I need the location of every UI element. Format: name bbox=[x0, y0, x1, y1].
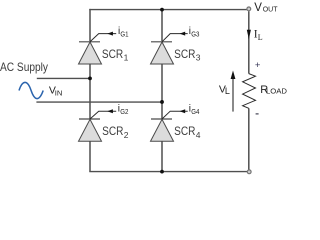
wire right branch bbox=[161, 10, 163, 172]
label iG4 bbox=[189, 104, 200, 116]
resistor RLOAD bbox=[243, 74, 256, 109]
svg-text:OUT: OUT bbox=[263, 5, 278, 14]
SCR Q4 (SCR4) bbox=[151, 119, 174, 141]
svg-text:G4: G4 bbox=[191, 107, 199, 116]
node AC2 junction dot bbox=[160, 100, 164, 104]
gate wire G1 bbox=[90, 34, 116, 42]
label VIN bbox=[49, 85, 62, 98]
gate wire G3 bbox=[162, 34, 188, 42]
SCR Q3 (SCR3) bbox=[151, 42, 174, 64]
SCR Q1 (SCR1) bbox=[79, 42, 102, 64]
wire AC input line 1 bbox=[37, 77, 90, 79]
svg-text:V: V bbox=[254, 2, 262, 14]
svg-text:G1: G1 bbox=[120, 29, 128, 38]
wire AC input line 2 bbox=[36, 101, 162, 103]
svg-text:SCR: SCR bbox=[102, 124, 124, 138]
svg-text:AC Supply: AC Supply bbox=[0, 60, 48, 74]
arrow IL (load current) bbox=[247, 30, 251, 40]
label SCR4 bbox=[174, 124, 201, 140]
label minus bbox=[256, 113, 259, 115]
label SCR2 bbox=[102, 124, 129, 140]
wire bottom rail bbox=[89, 171, 247, 173]
svg-text:1: 1 bbox=[124, 52, 129, 62]
svg-text:G3: G3 bbox=[191, 29, 199, 38]
node bottom rail junction dot bbox=[160, 170, 164, 174]
svg-text:+: + bbox=[255, 60, 261, 71]
gate arrow G3 bbox=[180, 32, 186, 36]
svg-text:L: L bbox=[258, 33, 263, 42]
label RLOAD bbox=[260, 84, 287, 96]
label VL bbox=[219, 83, 230, 95]
label iG2 bbox=[118, 104, 129, 116]
label SCR3 bbox=[174, 47, 201, 63]
svg-text:3: 3 bbox=[196, 52, 201, 62]
gate arrow G4 bbox=[180, 109, 186, 113]
svg-text:SCR: SCR bbox=[102, 47, 124, 61]
label VOUT bbox=[254, 2, 278, 14]
label IL bbox=[254, 29, 263, 43]
svg-text:SCR: SCR bbox=[174, 47, 196, 61]
svg-text:L: L bbox=[225, 86, 230, 96]
label SCR1 bbox=[102, 47, 129, 63]
svg-text:4: 4 bbox=[196, 130, 201, 140]
gate wire G2 bbox=[90, 111, 116, 119]
AC source sine wave bbox=[19, 82, 43, 98]
svg-text:LOAD: LOAD bbox=[266, 87, 287, 96]
svg-text:IN: IN bbox=[55, 89, 63, 98]
gate arrow G1 bbox=[107, 32, 113, 36]
label iG1 bbox=[118, 26, 129, 38]
node top rail junction dot bbox=[160, 8, 164, 12]
wire left branch lower bbox=[89, 64, 91, 172]
terminal VOUT bbox=[247, 7, 251, 11]
wire top rail bbox=[89, 9, 247, 41]
node AC1 junction dot bbox=[88, 77, 92, 81]
SCR Q2 (SCR2) bbox=[79, 119, 102, 141]
arrow VL (load voltage) bbox=[231, 71, 236, 112]
label iG3 bbox=[189, 26, 200, 38]
svg-text:G2: G2 bbox=[120, 107, 128, 116]
wire load branch bbox=[248, 11, 250, 169]
gate arrow G2 bbox=[107, 109, 113, 113]
gate wire G4 bbox=[162, 111, 188, 119]
terminal bottom-right bbox=[247, 170, 251, 174]
svg-text:2: 2 bbox=[124, 130, 129, 140]
svg-text:SCR: SCR bbox=[174, 124, 196, 138]
